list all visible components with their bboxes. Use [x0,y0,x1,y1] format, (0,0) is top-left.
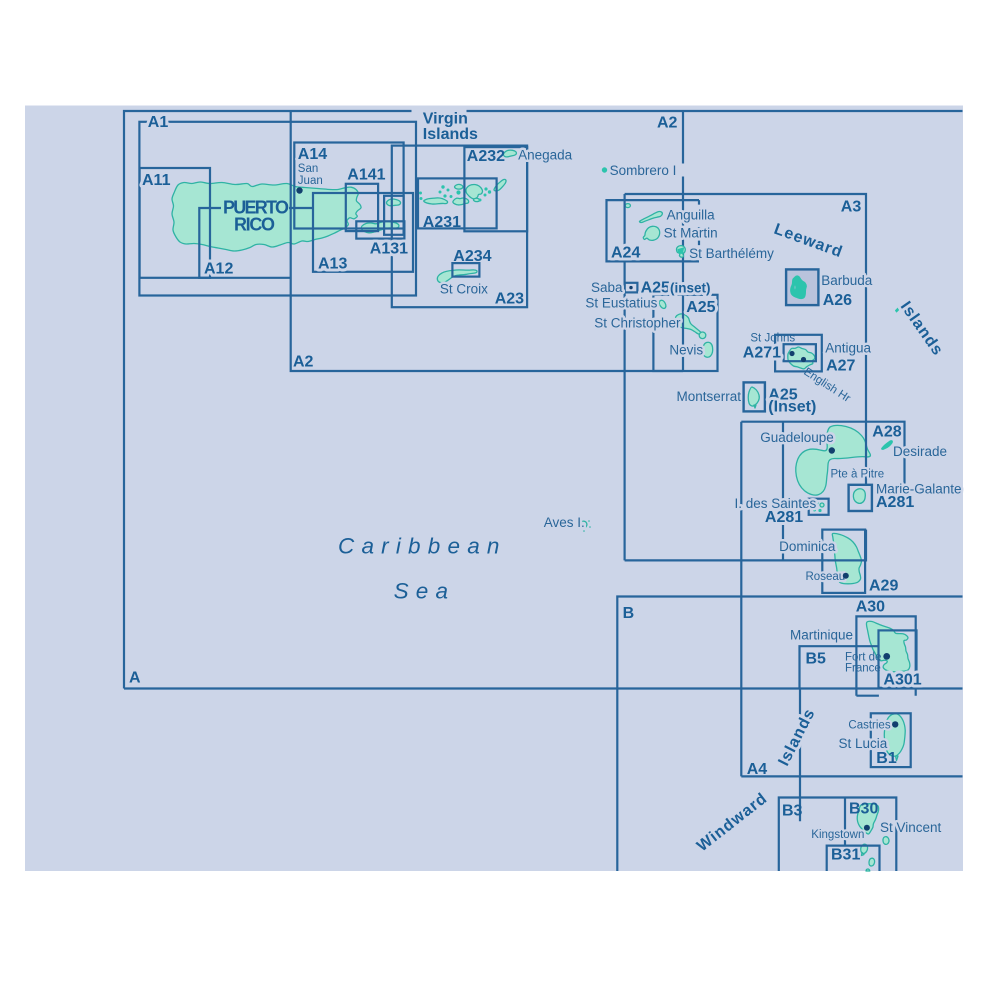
svg-text:A12: A12 [204,261,233,278]
svg-text:Dominica: Dominica [779,539,836,554]
svg-text:St Martin: St Martin [664,225,718,240]
svg-text:Saba: Saba [591,280,623,295]
svg-text:San: San [298,163,318,175]
svg-text:St Christopher: St Christopher [594,315,681,330]
svg-text:A301: A301 [883,671,921,688]
svg-text:A13: A13 [318,256,347,273]
svg-text:A11: A11 [142,172,171,189]
svg-text:A14: A14 [298,146,327,163]
svg-text:France: France [845,663,881,675]
svg-text:Sombrero I: Sombrero I [610,163,677,178]
svg-text:B1: B1 [876,750,897,767]
svg-text:A29: A29 [869,578,898,595]
svg-text:A25(inset): A25(inset) [641,279,711,296]
svg-text:A281: A281 [876,494,914,511]
svg-text:Aves I.: Aves I. [544,515,585,530]
svg-text:Virgin: Virgin [423,111,468,128]
svg-text:Anguilla: Anguilla [667,207,716,222]
svg-text:A27: A27 [826,357,855,374]
svg-text:Desirade: Desirade [893,444,947,459]
svg-text:A131: A131 [370,240,408,257]
svg-text:Guadeloupe: Guadeloupe [760,430,834,445]
svg-text:St Lucia: St Lucia [839,736,888,751]
svg-text:Antigua: Antigua [825,341,871,356]
svg-text:A271: A271 [743,345,781,362]
svg-text:Islands: Islands [423,126,478,143]
svg-text:B31: B31 [831,847,860,864]
svg-text:A2: A2 [293,354,314,371]
svg-text:Nevis: Nevis [669,343,703,358]
svg-text:Roseau: Roseau [806,571,846,583]
svg-text:B3: B3 [782,803,803,820]
svg-text:B30: B30 [849,801,878,818]
svg-text:A25: A25 [686,299,715,316]
svg-text:St Vincent: St Vincent [880,820,942,835]
svg-text:St Johns: St Johns [750,333,795,345]
svg-text:B5: B5 [806,650,827,667]
svg-text:Martinique: Martinique [790,627,853,642]
svg-text:Anegada: Anegada [518,148,573,163]
svg-text:A30: A30 [856,599,885,616]
svg-text:B: B [623,605,635,622]
svg-text:A1: A1 [148,114,169,131]
svg-text:A234: A234 [453,248,491,265]
svg-text:A231: A231 [423,214,461,231]
svg-text:Juan: Juan [298,175,323,187]
svg-text:A: A [129,670,141,687]
svg-text:A232: A232 [467,148,505,165]
svg-text:A3: A3 [841,199,862,216]
svg-text:St Barthélémy: St Barthélémy [689,246,774,261]
svg-text:St Eustatius: St Eustatius [585,295,657,310]
svg-text:RICO: RICO [234,215,275,235]
svg-text:St Croix: St Croix [440,282,488,297]
svg-text:A26: A26 [823,292,852,309]
svg-text:Barbuda: Barbuda [821,273,873,288]
svg-text:Sea: Sea [394,579,456,604]
svg-text:Kingstown: Kingstown [811,829,864,841]
svg-text:A281: A281 [765,509,803,526]
svg-text:Pte à Pitre: Pte à Pitre [831,468,885,480]
svg-text:(Inset): (Inset) [768,398,816,415]
svg-text:A2: A2 [657,115,678,132]
svg-text:A24: A24 [611,245,640,262]
svg-text:Caribbean: Caribbean [338,534,507,559]
svg-text:Castries: Castries [848,720,890,732]
svg-text:A141: A141 [347,166,385,183]
svg-text:Montserrat: Montserrat [676,389,741,404]
svg-text:A23: A23 [495,290,524,307]
svg-text:A28: A28 [872,424,901,441]
svg-text:A4: A4 [747,761,768,778]
